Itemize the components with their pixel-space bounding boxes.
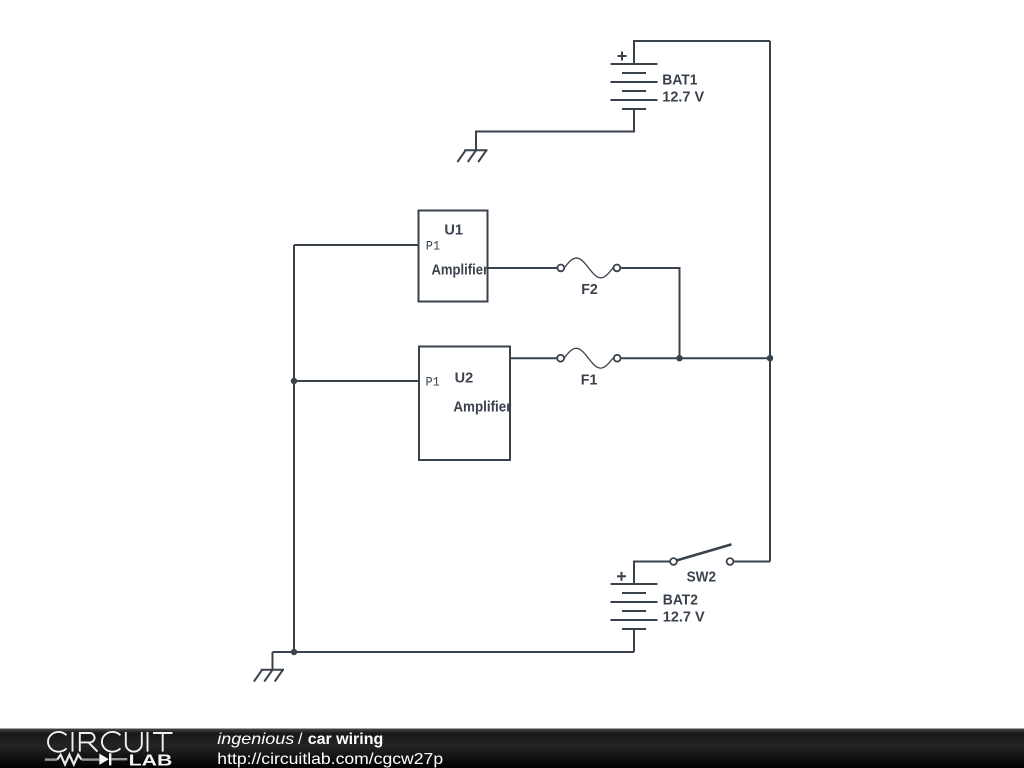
wire bottom rail to ground GND2: [272, 652, 274, 670]
fuse F1: [557, 348, 620, 368]
amplifier block U2: [419, 347, 510, 461]
svg-text:12.7 V: 12.7 V: [662, 89, 704, 106]
svg-text:SW2: SW2: [687, 569, 716, 586]
svg-text:Amplifier: Amplifier: [453, 399, 511, 416]
svg-text:Amplifier: Amplifier: [432, 262, 489, 279]
svg-text:http://circuitlab.com/cgcw27p: http://circuitlab.com/cgcw27p: [217, 751, 443, 768]
ground GND1: [457, 150, 487, 162]
wire U1 pin P1 to left rail: [294, 244, 419, 246]
switch SW2: [670, 544, 733, 564]
fuse F2: [557, 258, 620, 278]
svg-text:BAT1: BAT1: [662, 71, 697, 88]
wire U1 output to fuse F2: [488, 267, 558, 269]
wire left rail to U2 pin P1: [294, 380, 419, 382]
junction on left rail at U2 branch: [291, 378, 297, 384]
svg-text:P1: P1: [426, 239, 440, 253]
wire U2 output to fuse F1: [510, 357, 557, 359]
svg-text:ingenious: ingenious: [217, 731, 294, 748]
junction on left rail at bottom wire: [291, 649, 297, 655]
footer bar: [0, 729, 1024, 768]
wire BAT1 negative terminal to ground: [476, 109, 634, 150]
wire fuse F1 to node A and right rail: [621, 357, 770, 359]
wire bottom rail: [273, 651, 635, 653]
svg-text:12.7 V: 12.7 V: [663, 609, 705, 626]
battery BAT1: [611, 52, 658, 110]
svg-text:U2: U2: [455, 370, 474, 387]
junction node A (F2/F1 join): [676, 355, 682, 361]
svg-text:P1: P1: [426, 376, 440, 390]
svg-text:LAB: LAB: [129, 752, 173, 768]
logo resistor-diode symbol: [45, 753, 128, 765]
wire fuse F2 to node A: [621, 268, 680, 358]
svg-text:BAT2: BAT2: [663, 592, 698, 609]
ground GND2: [254, 670, 284, 682]
amplifier block U1: [419, 211, 488, 302]
battery BAT2: [611, 572, 658, 629]
wire right rail to switch SW2: [734, 561, 770, 563]
wire BAT2 negative to bottom rail: [633, 629, 635, 652]
svg-text:car wiring: car wiring: [308, 731, 384, 748]
svg-text:U1: U1: [444, 222, 463, 239]
wire BAT1 positive terminal up and across to right rail: [634, 41, 770, 64]
svg-text:F2: F2: [581, 281, 598, 298]
logo CIRCUIT text: [48, 732, 173, 752]
junction node on right rail: [767, 355, 773, 361]
svg-text:F1: F1: [581, 371, 598, 388]
wire switch SW2 to BAT2 positive: [634, 562, 670, 585]
wire left vertical rail: [293, 245, 295, 652]
wire right vertical rail: [769, 41, 771, 562]
svg-text:/: /: [298, 731, 303, 748]
